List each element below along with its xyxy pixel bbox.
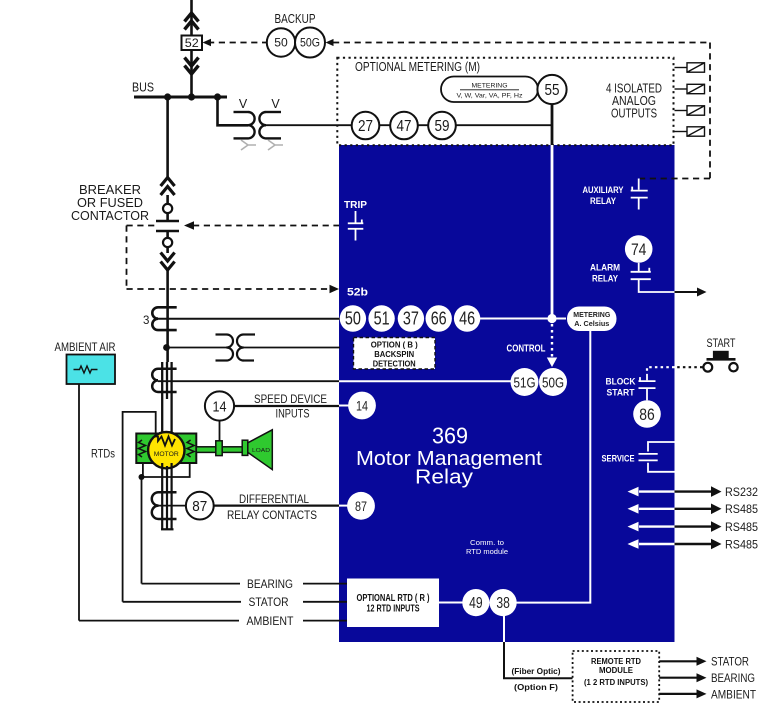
svg-text:START: START [607,388,635,399]
service self-test contact bracket [639,442,675,472]
wire bearing RTD loop under motor [143,463,190,477]
comm port RS485 bidirectional arrow 2 [628,521,722,532]
wire stub analog output 4 [675,131,688,133]
svg-text:V, W, Var, VA, PF, Hz: V, W, Var, VA, PF, Hz [457,93,523,100]
node bus-feeder junction [188,93,195,100]
svg-text:RELAY: RELAY [590,196,617,207]
remote bearing output arrow [659,673,706,682]
metering device 55 [537,75,566,104]
phase reversal device 47 [390,112,418,140]
wire 38 to remote RTD module [503,616,505,643]
svg-text:BREAKER: BREAKER [79,183,141,197]
svg-text:DETECTION: DETECTION [373,359,416,369]
wire incoming feeder top [190,0,193,97]
relay element 87 differential [347,492,375,520]
label ALARM RELAY [590,263,620,285]
wire chevron to contact [166,195,169,204]
wire CT2 to relay ground input 51G [158,380,340,382]
node bearing RTD junction [139,474,145,480]
wire 46 to metering junction [479,318,566,320]
ambient air RTD sensor box [67,355,116,385]
voltage transformer VT2 backspin secondary winding [237,335,255,361]
motor RTD resistor right [187,440,194,457]
svg-text:OPTIONAL METERING (M): OPTIONAL METERING (M) [355,60,480,74]
wire ambient row left [79,620,239,622]
svg-text:RS485: RS485 [725,537,758,551]
dashed wire left edge of 52b loop [126,226,128,290]
svg-text:START: START [707,338,736,350]
svg-text:51: 51 [374,309,390,329]
svg-text:51G: 51G [514,375,536,392]
node bus-PT junction [214,93,221,100]
svg-text:AMBIENT: AMBIENT [711,687,756,701]
motor RTD resistor left [139,440,146,457]
breaker stab terminal bottom [163,238,172,247]
svg-text:ALARM: ALARM [590,263,620,274]
dashed wire bottom of outer loop to auxiliary relay [640,178,710,180]
wire terminal to contact [166,213,169,220]
svg-text:87: 87 [355,499,367,514]
svg-text:LOAD: LOAD [252,448,270,454]
relay element 50 phase [340,305,366,331]
svg-text:14: 14 [213,398,227,415]
wire motor lead 2 to differential CT [166,466,168,529]
wire motor feeder B [166,362,168,399]
wire VT1 secondary to relay 27 [266,124,552,126]
svg-text:BEARING: BEARING [247,579,293,591]
relay element 14 speed [348,392,376,420]
wire bearing row right [303,583,348,585]
voltage transformer VT2 backspin primary winding [216,335,234,361]
svg-text:OPTION ( B ): OPTION ( B ) [371,340,418,350]
trip output contact [348,211,364,241]
RTD comm device 38 [490,589,517,616]
dotted control wire down to 50G [551,324,553,359]
svg-text:12 RTD INPUTS: 12 RTD INPUTS [367,604,420,615]
svg-text:50G: 50G [300,36,320,50]
wire bearing row left [142,583,241,585]
svg-text:369: 369 [432,423,468,449]
svg-text:BEARING: BEARING [711,671,755,685]
overvoltage device 59 [428,112,456,140]
relay element 46 [454,305,480,331]
label 4 ISOLATED ANALOG OUTPUTS [606,82,662,121]
dashed control wire backup to 52 with arrowhead [203,39,267,47]
svg-text:50G: 50G [542,375,564,392]
dotted enclosure optional metering [337,58,673,146]
start pushbutton terminal left [703,363,712,372]
wire junction to backspin VT [167,347,227,349]
label SPEED DEVICE INPUTS [254,394,327,421]
svg-text:87: 87 [192,498,207,515]
svg-text:OUTPUTS: OUTPUTS [611,107,657,121]
svg-text:RS485: RS485 [725,520,758,534]
start pushbutton cap [713,351,729,358]
relay element 50 backup [267,28,295,56]
RTD comm device 49 [462,589,489,616]
voltage transformer VT1 primary winding [234,112,255,138]
wire motor feeder C [170,362,172,436]
svg-text:V: V [271,97,280,111]
svg-text:74: 74 [631,240,647,259]
dashed trip wire to contactor with arrowhead [184,221,339,230]
label BREAKER OR FUSED CONTACTOR [71,183,149,223]
analog output transducer 2 [687,84,705,93]
svg-text:BLOCK: BLOCK [606,377,636,388]
start pushbutton bar [707,358,736,361]
auxiliary relay output contact [631,179,648,210]
wire motor lead 3 to differential CT [171,463,173,529]
svg-text:A. Celsius: A. Celsius [574,319,609,328]
control arrowhead down [547,358,557,368]
motor leads end bar [161,528,174,530]
wire bearing RTD down [141,477,143,584]
svg-text:MODULE: MODULE [599,665,633,675]
svg-text:METERING: METERING [472,83,508,90]
wire RTD box to 49 [439,602,463,604]
svg-text:RS232: RS232 [725,485,758,499]
relay element 66 [426,305,452,331]
wire bus down to breaker [166,97,169,178]
alarm relay output contact [631,263,675,292]
svg-text:27: 27 [358,118,373,135]
svg-text:55: 55 [545,82,560,99]
drawout chevrons below breaker 52 [185,58,199,75]
undervoltage device 27 [352,112,380,140]
dashed wire 52b status to relay with arrowhead [127,285,340,294]
analog output transducer 3 [687,106,705,115]
svg-text:50: 50 [345,309,361,329]
label BLOCK START [606,377,636,399]
svg-text:(1 2 RTD INPUTS): (1 2 RTD INPUTS) [584,677,648,687]
svg-text:TRIP: TRIP [344,200,367,211]
svg-text:MOTOR: MOTOR [154,451,179,458]
wire 87 to relay differential input [214,505,339,507]
wire speed device to shaft coupling [219,421,221,441]
label DIFFERENTIAL RELAY CONTACTS [227,494,317,522]
relay U1 369 motor management relay main body [339,145,675,642]
svg-text:RTDs: RTDs [91,449,115,461]
shaft from motor to load [196,447,242,453]
motor M stator frame [136,434,196,464]
wire ambient sensor down [78,384,80,621]
wire stub differential input [339,505,348,507]
wire contactor to CT [166,270,169,362]
relay element 50G backup [295,28,325,58]
svg-text:(Fiber Optic): (Fiber Optic) [512,666,561,676]
dashed wire left stub of 52b loop [127,225,157,227]
comm port RS485 bidirectional arrow 3 [628,539,722,550]
start pushbutton terminal right [729,363,737,371]
svg-text:CONTROL: CONTROL [507,344,546,355]
alarm device 74 [625,235,653,263]
wire stub analog output 3 [675,110,688,112]
wire motor lead 1 to differential CT [161,463,163,529]
load horn cone [248,430,272,470]
wire stub analog output 2 [675,88,688,90]
shaft coupling block [216,441,222,456]
current transformer CT1 phase winding [152,307,176,330]
remote RTD module dotted box [573,651,660,702]
wire stub analog output 1 [675,67,688,69]
wire contact to terminal [166,231,169,238]
dashed wire 50G to analog outputs loop with arrowhead [326,39,711,46]
label AUXILIARY RELAY [583,185,625,207]
wire ground CT to 51G internal [339,380,511,382]
wire bus to voltage transformer primary [218,97,249,125]
svg-text:DIFFERENTIAL: DIFFERENTIAL [239,494,310,506]
svg-text:Comm. to: Comm. to [470,538,504,547]
svg-text:V: V [239,97,248,111]
metering ampere celsius capsule [567,307,617,332]
svg-text:49: 49 [469,595,483,612]
node PT tap junction [163,344,170,351]
wire stator row right [303,601,348,603]
svg-text:59: 59 [435,118,450,135]
voltage transformer VT1 secondary winding [259,112,281,138]
wire stator row left [123,601,241,603]
wire VT2 secondary to backspin option input [244,347,341,349]
svg-text:Relay: Relay [415,466,474,489]
node bus-breaker junction [164,93,171,100]
block start contact [639,374,656,400]
svg-text:52b: 52b [347,287,368,299]
drawout chevrons above breaker 52 [185,13,199,30]
comm port RS485 bidirectional arrow 1 [628,504,722,515]
analog output transducer 1 [687,63,705,72]
svg-text:BACKSPIN: BACKSPIN [374,349,414,359]
wire stator RTD from motor top [123,412,156,602]
svg-text:3: 3 [143,315,149,327]
svg-text:RELAY: RELAY [592,274,619,285]
contactor main contact bars [156,221,179,231]
comm port RS232 bidirectional arrow [628,486,722,497]
svg-text:RELAY CONTACTS: RELAY CONTACTS [227,510,317,522]
current transformer CT2 ground fault winding [152,369,176,392]
optional RTD R inputs box [347,579,439,628]
motor M rotor circle [148,432,184,468]
svg-text:OPTIONAL RTD ( R ): OPTIONAL RTD ( R ) [357,593,430,604]
svg-text:SERVICE: SERVICE [602,454,635,465]
svg-text:47: 47 [397,118,412,135]
relay element 51G [511,368,539,396]
wire CT1 to relay phase input 50 [158,318,340,320]
svg-text:46: 46 [459,309,475,329]
node metering junction [547,314,556,323]
svg-text:BUS: BUS [132,81,154,95]
svg-text:STATOR: STATOR [711,655,749,669]
svg-text:INPUTS: INPUTS [276,409,310,421]
wire ambient row right [303,620,348,622]
dashed wire right edge of outer loop [709,43,711,179]
relay element 51 [368,305,394,331]
wire metering capsule to 38 comm [516,331,590,603]
relay element 50G [539,368,567,396]
load coupling neck [242,440,248,455]
block start lockout device 86 [633,400,661,428]
svg-text:STATOR: STATOR [249,597,289,609]
svg-text:SPEED DEVICE: SPEED DEVICE [254,394,327,406]
metering function capsule [441,77,538,103]
wire CT3 to differential device 87 [159,505,187,507]
remote ambient output arrow [659,689,706,698]
svg-text:38: 38 [496,595,510,612]
svg-text:AMBIENT AIR: AMBIENT AIR [55,342,116,354]
drawout chevrons below contactor [161,253,175,271]
svg-text:AMBIENT: AMBIENT [247,616,294,628]
speed switch device 14 [205,391,234,420]
breaker 52 device box [182,36,203,51]
motor winding resistor symbol [154,437,176,446]
svg-text:RTD module: RTD module [466,547,508,556]
option B backspin detection box [354,338,436,370]
wire speed device to relay 14 [234,405,339,407]
wire 55 down into relay [551,104,554,146]
svg-text:50: 50 [274,36,288,50]
relay element 37 [398,305,424,331]
wire terminal to chevrons [166,247,169,253]
remote stator output arrow [659,657,706,666]
ambient RTD resistor symbol [74,366,98,373]
svg-text:37: 37 [403,309,419,329]
dotted start wire internal [647,367,675,374]
current transformer CT3 differential winding [152,492,177,519]
svg-text:66: 66 [431,309,447,329]
wire 55 internal drop [551,145,554,319]
svg-text:BACKUP: BACKUP [275,12,316,26]
dotted start wire external [675,366,703,368]
wire motor feeder A [161,362,163,436]
svg-text:AUXILIARY: AUXILIARY [583,185,625,196]
label Comm. to RTD module [466,538,508,556]
svg-text:(Option F): (Option F) [514,682,558,692]
alarm output wire external with arrowhead [675,288,707,297]
breaker stab terminal top [163,204,172,213]
svg-text:RS485: RS485 [725,502,758,516]
svg-text:52: 52 [185,36,199,50]
svg-text:86: 86 [639,405,655,424]
differential lockout device 87 [186,492,214,520]
wire stub speed input [339,405,349,407]
svg-text:OR FUSED: OR FUSED [77,196,143,210]
wire bus [134,96,227,99]
analog output transducer 4 [687,127,705,136]
wye ground symbol under VT1 primary [241,140,256,150]
svg-text:METERING: METERING [573,310,610,319]
svg-text:14: 14 [356,399,368,414]
wye ground symbol under VT1 secondary [268,140,283,150]
svg-text:CONTACTOR: CONTACTOR [71,209,149,223]
drawout chevrons above contactor [161,178,175,196]
